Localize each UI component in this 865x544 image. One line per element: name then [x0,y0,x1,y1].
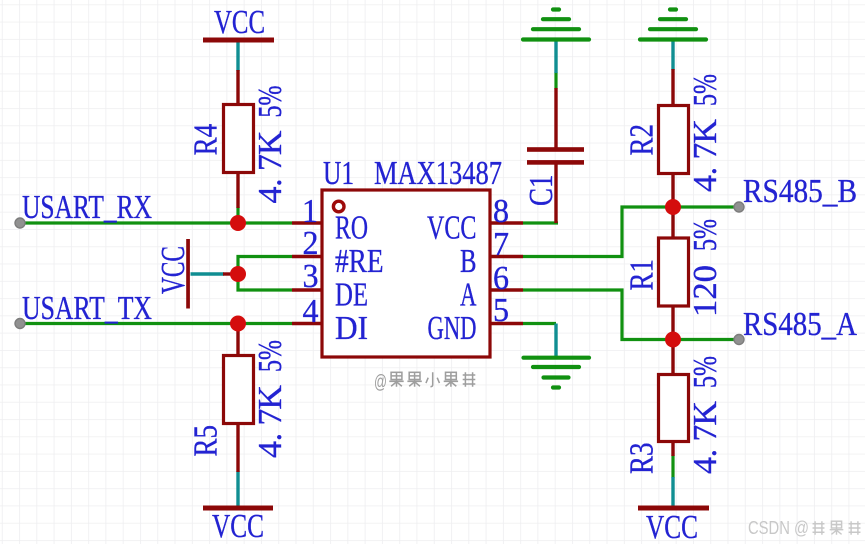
svg-text:RS485_B: RS485_B [743,173,857,210]
wire R2 to top ground [671,41,674,70]
wire R3 to VCC bottom [671,477,674,506]
svg-text:4.7K: 4.7K [687,119,724,192]
wire pin6 A to RS485_A [523,290,739,340]
wire R1 bottom lead [671,304,674,340]
port dot USART_TX [15,319,25,329]
svg-text:VCC: VCC [212,508,264,544]
svg-text:R1: R1 [624,259,661,291]
ground below pin5 [524,358,590,388]
wire pin8 to C1 [523,221,558,224]
svg-text:VCC: VCC [214,4,265,41]
svg-text:VCC: VCC [427,210,477,247]
wire VCC mid red bit [223,272,238,275]
power VCC mid bar (rotated) [186,239,190,309]
svg-text:DI: DI [335,310,368,347]
svg-text:R5: R5 [188,425,225,457]
wire pin3 stub [292,288,322,291]
wire R3 top lead [671,340,674,377]
wire VCC mid to junction [191,272,225,275]
svg-text:C1: C1 [523,175,560,207]
port dot RS485_A [734,335,744,345]
svg-text:U1: U1 [323,155,354,192]
wire pin7 stub [490,255,523,258]
ground top (above R2, flipped) [640,10,706,40]
wire pin5 down to ground [554,324,557,358]
power VCC top bar [203,38,274,43]
wire USART_TX net [20,322,292,325]
svg-text:CSDN @: CSDN @ [748,517,809,538]
svg-text:2: 2 [303,225,319,262]
svg-text:USART_TX: USART_TX [22,290,152,327]
capacitor C1 plates [527,147,584,152]
power VCC bottom-left bar [203,506,273,511]
wire R5 bottom lead [236,423,239,472]
svg-text:3: 3 [303,258,319,295]
svg-text:A: A [460,277,477,314]
svg-text:MAX13487: MAX13487 [374,155,502,192]
svg-text:5%: 5% [687,356,724,388]
svg-text:8: 8 [493,193,509,230]
watermark CSDN @剑藏锋 [748,517,860,538]
svg-text:RS485_A: RS485_A [743,306,857,343]
svg-text:5%: 5% [252,86,289,118]
wire R1 top lead [671,207,674,239]
svg-text:4.7K: 4.7K [252,385,289,458]
junction at RS485_B [665,199,681,215]
svg-text:@: @ [374,372,387,393]
wire pin7 B to RS485_B [523,207,739,257]
junction at VCC mid [230,266,246,282]
svg-text:5%: 5% [687,74,724,106]
wire R2 bottom lead [671,171,674,207]
svg-text:4: 4 [303,293,319,330]
watermark @果果小师弟 [374,372,475,393]
wire R2 top lead [671,69,674,107]
svg-text:VCC: VCC [646,509,698,544]
svg-text:5%: 5% [687,219,724,251]
resistor R1 body [659,238,689,306]
junction at RS485_A [665,332,681,348]
wire pin5 to ground [523,322,556,325]
wire USART_RX net [20,221,292,224]
wire C1 to top ground [554,41,557,73]
wire pin2 stub [292,255,322,258]
svg-text:5: 5 [493,292,509,329]
pin 1 indicator circle [333,201,344,212]
svg-text:120: 120 [687,265,724,317]
junction at USART_RX [230,215,246,231]
wire junction to pin3 [238,272,292,290]
svg-text:4.7K: 4.7K [252,130,289,203]
svg-text:#RE: #RE [335,243,384,280]
wire junction to pin2 [238,257,292,276]
wire R3 bottom green segment [671,455,674,478]
port dot RS485_B [734,202,744,212]
resistor R2 body [659,106,689,174]
wire pin1 stub [292,221,322,224]
wire R5 top lead [236,324,239,358]
svg-text:5%: 5% [252,340,289,372]
wire R3 bottom lead [671,439,674,456]
power VCC bottom-right bar [638,506,709,511]
resistor R3 body [659,375,689,442]
wire R4 bottom lead [236,171,239,208]
wire R4 top lead [236,70,239,106]
wire pin4 stub [292,322,322,325]
junction at USART_TX [230,316,246,332]
svg-text:RO: RO [335,210,368,247]
svg-text:GND: GND [428,310,477,347]
svg-text:DE: DE [335,277,368,314]
wire C1 bottom lead [554,164,557,223]
resistor R5 body [224,356,254,424]
wire C1 top lead [554,88,557,149]
wire R4 to junction [236,207,239,223]
port dot USART_RX [15,218,25,228]
resistor R4 body [224,105,254,173]
ground top (above C1, flipped) [523,10,589,40]
wire VCC top to R4 [236,41,239,71]
svg-text:R3: R3 [624,443,661,475]
svg-text:7: 7 [493,226,509,263]
svg-text:VCC: VCC [155,246,192,294]
wire pin8 stub [490,221,523,224]
svg-text:R2: R2 [624,124,661,156]
svg-text:B: B [460,243,477,280]
svg-text:R4: R4 [187,124,224,156]
wire pin5 stub [490,322,523,325]
wire pin6 stub [490,288,523,291]
svg-text:USART_RX: USART_RX [22,189,152,226]
wire C1 top green segment [554,72,557,89]
svg-text:4.7K: 4.7K [687,401,724,474]
op-amp U1 body [322,190,490,357]
wire R5 to VCC bottom [236,471,239,506]
